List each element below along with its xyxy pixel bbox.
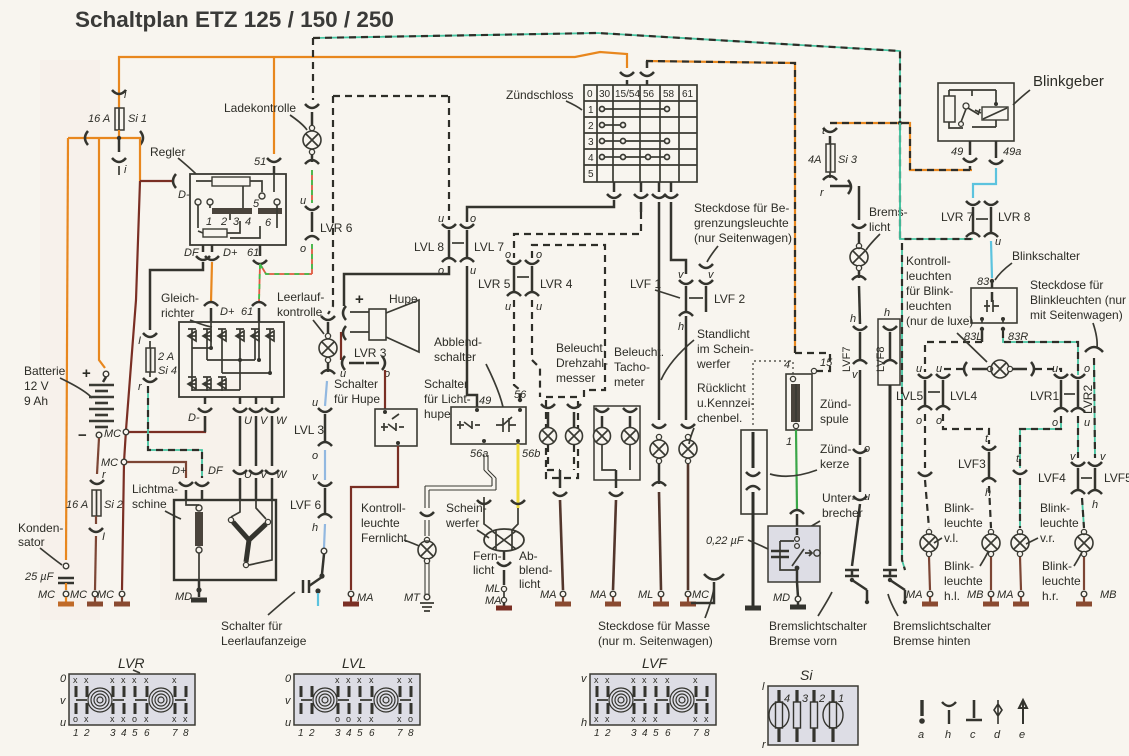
svg-text:Blink-: Blink- [1040,501,1070,515]
svg-text:x: x [335,675,340,685]
svg-text:x: x [121,675,126,685]
wire: LVL7 down to light switch 49 [467,266,477,407]
svg-text:16 A: 16 A [88,113,110,125]
svg-text:I: I [102,531,105,543]
wire: LVL8 to horn plus [344,266,449,306]
svg-text:7: 7 [172,728,178,739]
svg-text:Hupe: Hupe [389,292,418,306]
svg-text:Si 2: Si 2 [104,499,123,511]
svg-text:LVL 3: LVL 3 [294,423,324,437]
svg-text:Gleich-: Gleich- [161,291,199,305]
Blinkgeber box [938,83,1014,141]
svg-text:a: a [918,729,924,741]
dotted line coil 4 to spark plug [753,361,793,428]
regler box [190,174,286,245]
svg-text:56a: 56a [470,448,488,460]
svg-text:Standlicht: Standlicht [697,327,750,341]
svg-text:Zünd-: Zünd- [820,442,851,456]
svg-text:o: o [505,249,511,261]
svg-text:Ladekontrolle: Ladekontrolle [224,101,296,115]
svg-text:LVF 6: LVF 6 [290,498,321,512]
svg-text:werfer: werfer [445,516,479,530]
svg-text:0,22 µF: 0,22 µF [706,535,745,547]
svg-text:Kontroll-: Kontroll- [906,254,951,268]
svg-text:u: u [300,195,306,207]
wire: DF black to fuse Si4 [150,262,203,330]
svg-text:u: u [864,491,870,503]
svg-text:x: x [183,714,188,724]
wire: LVF8 down to rear brake area [889,385,892,566]
svg-text:o: o [916,415,922,427]
svg-text:LVF8: LVF8 [875,347,887,372]
svg-text:4: 4 [642,728,648,739]
svg-text:D+: D+ [220,306,235,318]
svg-text:6: 6 [144,728,150,739]
svg-text:+: + [355,291,364,308]
svg-text:49: 49 [479,395,491,407]
wire: orange to battery plus [99,138,105,368]
svg-text:Zünd-: Zünd- [820,397,851,411]
wire: 61 pin to LVF1 [671,202,686,274]
svg-text:meter: meter [614,375,645,389]
svg-text:8: 8 [704,728,710,739]
svg-text:D-: D- [188,412,200,424]
wire: maroon horn switch to MA ground [351,446,398,590]
svg-text:1: 1 [73,728,79,739]
wire: lamp to LVF7 [859,286,860,324]
svg-text:25 µF: 25 µF [24,571,55,583]
svg-text:brecher: brecher [822,506,863,520]
svg-text:x: x [408,675,413,685]
svg-text:1: 1 [786,436,792,448]
svg-text:8: 8 [408,728,414,739]
svg-text:für Blink-: für Blink- [906,284,953,298]
svg-text:MA: MA [997,589,1014,601]
wire: top orange feed from battery fuse across top [119,52,627,97]
wire: blue to LVL3 [325,381,327,406]
svg-text:MC: MC [70,589,87,601]
svg-text:x: x [653,714,658,724]
svg-text:2: 2 [604,728,611,739]
lamp charge control [309,125,314,130]
svg-text:D+: D+ [223,247,238,259]
svg-text:Tacho-: Tacho- [614,360,650,374]
svg-text:LVF5: LVF5 [1104,471,1129,485]
wire: green coil to breaker [796,430,797,510]
svg-text:v.l.: v.l. [944,531,958,545]
svg-text:x: x [172,714,177,724]
svg-text:x: x [144,675,149,685]
svg-text:werfer: werfer [696,357,730,371]
wire: fuse Si3 to brake lamp [830,180,859,220]
wire: battery minus down [97,438,99,474]
svg-text:für Hupe: für Hupe [334,392,380,406]
svg-text:o: o [335,714,340,724]
svg-text:spule: spule [820,412,849,426]
socket masse arc [691,574,724,603]
svg-text:D-: D- [178,189,190,201]
svg-text:MT: MT [404,592,421,604]
svg-text:sator: sator [18,535,45,549]
svg-text:3: 3 [110,728,116,739]
svg-text:MC: MC [104,428,121,440]
wire: lamp dashes to LVL4 and LVR1 [943,369,963,372]
lichtmaschine box [174,500,276,580]
wire: teal 49a to LVR7 [973,168,996,198]
svg-text:3: 3 [233,216,240,228]
svg-text:MB: MB [1100,589,1117,601]
svg-text:u: u [1052,363,1058,375]
svg-text:+: + [82,365,91,382]
svg-text:Beleucht.: Beleucht. [614,345,664,359]
svg-text:−: − [78,427,87,444]
svg-text:licht: licht [473,563,495,577]
svg-text:o: o [346,714,351,724]
svg-text:1: 1 [206,216,212,228]
svg-text:Kontroll-: Kontroll- [361,501,406,515]
svg-text:blend-: blend- [519,563,552,577]
svg-text:LVR 8: LVR 8 [998,210,1031,224]
svg-text:12 V: 12 V [24,379,49,393]
svg-text:Steckdose für Masse: Steckdose für Masse [598,619,710,633]
svg-text:u: u [916,363,922,375]
svg-text:grenzungsleuchte: grenzungsleuchte [694,216,789,230]
svg-text:15/54: 15/54 [615,89,640,100]
wire: black-orange dashed trunk (ignition feed) [646,61,795,353]
svg-text:49: 49 [951,146,963,158]
svg-text:MA: MA [485,595,502,607]
fuse Si1 16A [118,97,120,108]
svg-text:7: 7 [693,728,699,739]
svg-text:v.r.: v.r. [1040,531,1055,545]
svg-text:4: 4 [784,693,790,705]
svg-text:Bremslichtschalter: Bremslichtschalter [893,619,991,633]
svg-text:7: 7 [397,728,403,739]
wire: teal LVR8 to Blinkschalter [991,241,992,278]
svg-text:x: x [605,714,610,724]
svg-text:5: 5 [132,728,138,739]
svg-text:51: 51 [254,156,266,168]
svg-text:Si: Si [800,667,813,683]
svg-text:2 A: 2 A [157,351,174,363]
svg-text:LVR 3: LVR 3 [354,346,387,360]
wire: LVL4 dashed to LVF3 and rear left indicator [943,414,989,444]
svg-text:im Schein-: im Schein- [697,342,754,356]
ruecklicht lamp [685,316,688,420]
svg-text:kerze: kerze [820,457,850,471]
svg-text:MB: MB [967,589,984,601]
svg-text:6: 6 [369,728,375,739]
wire: MC1 to rectifier D- [129,416,205,432]
svg-text:1: 1 [588,105,594,116]
svg-text:MC: MC [101,457,118,469]
svg-text:MA: MA [590,589,607,601]
svg-text:5: 5 [253,198,260,210]
node: fuse crossbar with connectors [68,137,137,139]
wire: teal dashed Si4 to dynamo DF [148,386,202,478]
svg-text:x: x [110,714,115,724]
svg-text:LVR 7: LVR 7 [941,210,974,224]
wire: green-red dashed 61 regler to rectifier and LVR6 [259,264,312,302]
svg-text:x: x [653,675,658,685]
svg-text:83: 83 [977,276,990,288]
svg-text:leuchten: leuchten [906,269,951,283]
svg-text:Beleucht.: Beleucht. [556,341,606,355]
svg-text:h: h [1092,499,1098,511]
svg-text:Brems-: Brems- [869,205,908,219]
svg-text:Blink-: Blink- [944,501,974,515]
rectifier exits D- U V W [198,397,212,432]
svg-text:LVF 1: LVF 1 [630,277,661,291]
svg-text:o: o [132,714,137,724]
lamp neutral indicator [321,316,335,334]
wire: LVR4 dashed to tachometer lights [532,300,540,397]
svg-text:MD: MD [175,591,192,603]
svg-text:(nur Seitenwagen): (nur Seitenwagen) [694,231,792,245]
svg-text:o: o [536,249,542,261]
connectors LVF7 LVF8 with box [878,319,900,385]
svg-text:x: x [121,714,126,724]
svg-text:2: 2 [818,693,825,705]
svg-text:Leerlauf-: Leerlauf- [277,290,324,304]
svg-text:5: 5 [588,169,594,180]
wire: maroon column from regler D- via MC junctions [122,181,140,590]
wire: dashed bus to fuse Si3 and terminal 49 [830,123,972,170]
svg-text:6: 6 [665,728,671,739]
svg-text:leuchte: leuchte [1042,574,1081,588]
svg-text:30: 30 [599,89,611,100]
svg-text:LVF: LVF [642,655,668,671]
svg-text:x: x [172,675,177,685]
svg-text:15: 15 [820,357,833,369]
indicator lamp rear right [1081,529,1086,534]
legend symbols [919,700,1027,724]
svg-text:x: x [73,675,78,685]
svg-text:u: u [536,301,542,313]
svg-text:x: x [357,714,362,724]
svg-text:Unter-: Unter- [822,491,855,505]
svg-text:MC: MC [692,589,709,601]
svg-text:Blinkgeber: Blinkgeber [1033,73,1104,90]
diodes bottom row [188,377,226,391]
rotor resistor [196,505,202,511]
svg-text:4: 4 [245,216,251,228]
svg-text:x: x [693,675,698,685]
svg-text:Leerlaufanzeige: Leerlaufanzeige [221,634,307,648]
svg-text:I: I [138,335,141,347]
svg-text:chenbel.: chenbel. [697,411,742,425]
svg-text:61: 61 [247,247,259,259]
svg-text:kontrolle: kontrolle [277,305,323,319]
svg-text:o: o [864,443,870,455]
svg-text:6: 6 [265,217,272,229]
svg-text:leuchte: leuchte [944,574,983,588]
svg-text:Blink-: Blink- [1042,559,1072,573]
svg-text:Lichtma-: Lichtma- [132,482,178,496]
svg-text:h: h [678,321,684,333]
svg-text:Regler: Regler [150,145,185,159]
svg-text:Rücklicht: Rücklicht [697,381,746,395]
svg-text:LVR1: LVR1 [1030,389,1059,403]
dashed harness box upper middle [328,96,449,314]
svg-text:4: 4 [588,153,594,164]
svg-text:U: U [244,469,252,481]
svg-text:c: c [970,729,976,741]
ignition switch table [584,85,697,182]
svg-text:56: 56 [643,89,655,100]
svg-text:o: o [312,450,318,462]
wire: orange to condenser (left) [66,138,68,560]
regler internals [212,177,250,186]
rectifier internal wiring [192,322,270,390]
svg-text:Fern-: Fern- [473,549,502,563]
svg-text:u: u [995,236,1001,248]
brake lamp [852,224,866,244]
wire: LVL5 dashed to front left indicator [924,414,926,468]
lamp box speedometer [594,406,640,480]
svg-text:u: u [312,397,318,409]
svg-text:u: u [1084,417,1090,429]
svg-text:Schalter für: Schalter für [221,619,282,633]
svg-text:9 Ah: 9 Ah [24,394,48,408]
svg-text:u: u [285,717,291,729]
svg-text:e: e [1019,729,1025,741]
wire: green-red to LVR6 [311,170,313,203]
svg-text:x: x [397,675,402,685]
svg-text:61: 61 [241,306,253,318]
wire: top black-teal dashed trunk [313,33,973,239]
junction [898,121,902,125]
wire: yellow 56b to headlamp [517,444,520,508]
wire: LVR1 dashed to front right indicator [1020,416,1061,468]
svg-text:leuchte: leuchte [1040,516,1079,530]
svg-text:Steckdose für: Steckdose für [1030,278,1103,292]
svg-text:61: 61 [682,89,694,100]
svg-text:x: x [605,675,610,685]
svg-text:4: 4 [121,728,127,739]
svg-text:richter: richter [161,306,194,320]
wire: dashed drop to charge lamp [312,38,314,100]
svg-text:0: 0 [587,89,593,100]
svg-text:o: o [1052,417,1058,429]
svg-text:49a: 49a [1003,146,1021,158]
svg-text:h: h [312,522,318,534]
svg-text:x: x [346,675,351,685]
fuse Si4 2A [143,333,157,337]
svg-text:LVL: LVL [342,655,366,671]
front brake switch [845,570,859,576]
svg-text:1: 1 [594,728,600,739]
svg-text:Schein-: Schein- [446,501,487,515]
svg-text:leuchte: leuchte [361,516,400,530]
svg-text:Si 3: Si 3 [838,154,858,166]
svg-text:o: o [408,714,413,724]
svg-text:Schaltplan ETZ 125 / 150 / 250: Schaltplan ETZ 125 / 150 / 250 [75,7,394,32]
svg-text:u.Kennzei-: u.Kennzei- [697,396,754,410]
svg-text:leuchten: leuchten [906,299,951,313]
svg-text:h.l.: h.l. [944,589,960,603]
svg-text:MC: MC [38,589,55,601]
svg-text:Bremse vorn: Bremse vorn [769,634,837,648]
svg-text:MD: MD [773,592,790,604]
ignition table bottom pins [607,182,621,198]
svg-text:licht: licht [869,220,891,234]
connector 61 rectifier [252,302,266,306]
svg-text:Blinkleuchten (nur: Blinkleuchten (nur [1030,293,1126,307]
svg-text:u: u [470,265,476,277]
svg-text:LVL 8: LVL 8 [414,240,444,254]
svg-text:schine: schine [132,497,167,511]
wire: ignition line to LVL7 [467,200,614,222]
svg-text:x: x [704,714,709,724]
svg-text:messer: messer [556,371,595,385]
svg-text:LVR 5: LVR 5 [478,277,511,291]
svg-text:x: x [369,714,374,724]
svg-text:Steckdose für Be-: Steckdose für Be- [694,201,789,215]
svg-text:3: 3 [588,137,594,148]
svg-text:2: 2 [83,728,90,739]
svg-text:8: 8 [183,728,189,739]
stator Y winding [233,522,266,562]
svg-text:LVL4: LVL4 [950,389,977,403]
wire: 83L dashed to LVL5 [981,331,984,342]
svg-text:MA: MA [906,589,923,601]
svg-text:x: x [84,675,89,685]
svg-text:mit Seitenwagen): mit Seitenwagen) [1030,308,1123,322]
neutral switch [321,548,327,554]
wire: MC2 to dynamo D+ [127,462,186,478]
svg-text:5: 5 [357,728,363,739]
svg-text:x: x [631,675,636,685]
svg-text:Ab-: Ab- [519,549,538,563]
svg-text:o: o [73,714,78,724]
connector D- at regler left [173,174,176,188]
svg-text:3: 3 [335,728,341,739]
svg-text:x: x [84,714,89,724]
wire: teal dashed right trunk down to rear brake [899,123,901,239]
indicator lamp front right [1017,529,1022,534]
svg-text:Schalter: Schalter [424,377,468,391]
svg-text:5: 5 [653,728,659,739]
svg-text:x: x [397,714,402,724]
svg-text:DF: DF [208,465,224,477]
svg-text:LVR 6: LVR 6 [320,221,353,235]
svg-text:o: o [300,243,306,255]
wire: maroon horn to LVR3 [340,332,342,360]
svg-text:Bremse hinten: Bremse hinten [893,634,970,648]
svg-text:W: W [276,415,288,427]
svg-text:x: x [642,675,647,685]
svg-text:Si 4: Si 4 [158,365,177,377]
svg-text:1: 1 [298,728,304,739]
svg-text:4A: 4A [808,154,821,166]
svg-text:0: 0 [285,673,292,685]
svg-text:x: x [594,675,599,685]
wire: orange regler D+ to rectifier D+ [211,262,212,302]
svg-text:u: u [505,301,511,313]
svg-text:ML: ML [638,589,653,601]
svg-text:ML: ML [485,583,500,595]
svg-text:d: d [994,729,1001,741]
wire: green-red LVR6 to regler 61 bus [311,244,313,274]
wire: LVF4 to rear right indicator [1082,498,1084,528]
svg-text:Blink-: Blink- [944,559,974,573]
svg-text:Abblend-: Abblend- [434,335,482,349]
svg-text:3: 3 [631,728,637,739]
indicator lamp rear left [988,529,993,534]
svg-text:Zündschloss: Zündschloss [506,88,573,102]
svg-text:x: x [631,714,636,724]
